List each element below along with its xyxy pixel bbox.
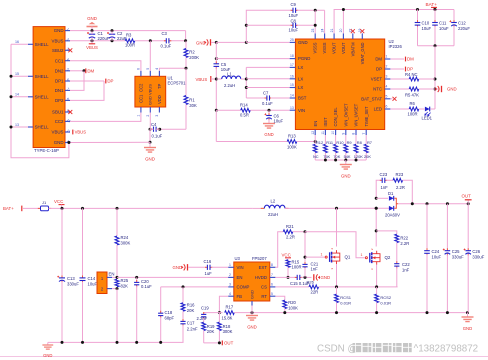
wire COMP line [161,286,229,288]
svg-text:10: 10 [331,131,335,135]
no-connect VBATM [351,29,355,33]
wire LX bus [245,67,247,98]
svg-text:SHELL: SHELL [35,125,49,130]
svg-text:75K: 75K [323,154,330,159]
wire VBUS pin2 net [70,40,125,42]
svg-text:5: 5 [271,292,273,296]
svg-text:VSET: VSET [371,77,383,82]
svg-text:300K: 300K [121,241,131,246]
svg-text:BAT+: BAT+ [3,206,14,211]
ground right rail [466,311,469,314]
capacitor C11 10uF [434,8,437,11]
svg-text:6: 6 [386,105,388,109]
svg-text:GND: GND [54,140,64,145]
svg-text:DP: DP [107,79,113,84]
header EN 2pin [97,272,107,294]
IC U3 FP5207 [234,262,270,301]
svg-text:ISET: ISET [323,117,328,127]
svg-text:330uF: 330uF [67,281,79,286]
svg-text:VOUT: VOUT [332,42,337,54]
resistor R3 100R [125,39,135,43]
ground U1 GND [149,142,151,147]
svg-text:LX: LX [298,65,303,70]
capacitor C3 0.1uF [164,40,166,42]
svg-text:15: 15 [15,72,19,76]
wire gate bus [293,231,305,233]
svg-text:CON_SEL: CON_SEL [333,107,338,127]
svg-text:VDD: VDD [157,95,162,104]
svg-text:NC: NC [313,154,319,159]
IC U1 ECP5701 [135,76,166,107]
svg-text:12: 12 [311,131,315,135]
wire resistor bottom bus [315,159,366,161]
svg-text:DM: DM [87,68,94,73]
svg-text:VIN: VIN [237,265,244,270]
svg-text:21: 21 [330,29,334,33]
svg-text:220uF: 220uF [458,26,470,31]
resistor R23 2.2R snubber [393,178,403,182]
svg-text:0.1uF: 0.1uF [161,44,172,49]
svg-text:PGND: PGND [298,56,310,61]
svg-text:RT: RT [261,294,267,299]
capacitor C2 22uF [111,29,114,32]
svg-text:2: 2 [229,273,231,277]
resistor R16 20K [182,287,184,303]
capacitor C23 1nF snubber [376,180,381,198]
svg-text:0.01R: 0.01R [340,301,351,306]
wire sgnd rail [252,312,468,314]
capacitor C13 330uF [61,207,64,210]
capacitor C16 1uF [205,266,207,268]
wire U1 pin2 to GND [149,113,151,130]
svg-text:CC2: CC2 [55,119,64,124]
svg-text:ECP5701: ECP5701 [168,81,187,86]
svg-text:R5 47K: R5 47K [405,92,419,97]
svg-text:7: 7 [271,273,273,277]
svg-text:R7: R7 [367,140,372,145]
svg-text:VBUS: VBUS [86,45,98,50]
svg-text:R23: R23 [396,172,404,177]
svg-text:2: 2 [386,65,388,69]
svg-text:100K: 100K [288,305,298,310]
port OUT bottom [221,341,223,346]
svg-text:GND: GND [321,275,331,280]
svg-text:R6: R6 [410,101,416,106]
svg-text:LED1: LED1 [422,116,433,121]
svg-text:LX: LX [298,76,303,81]
svg-text:30K: 30K [189,103,197,108]
svg-text:1: 1 [361,253,363,257]
resistor R5 47K [390,88,409,90]
svg-text:GND: GND [264,132,273,137]
svg-text:8: 8 [352,133,356,135]
wire FB line [219,296,228,312]
svg-text:EN: EN [237,275,243,280]
wire VCC rail [49,207,253,209]
svg-text:10uF: 10uF [439,26,449,31]
resistor R17 15.8K [225,311,235,315]
capacitor C4 0.1uF [158,128,161,131]
svg-text:CSDN @: CSDN @ [317,344,357,355]
wire CS line [275,286,309,288]
svg-text:100R: 100R [125,43,135,48]
svg-text:1: 1 [229,263,231,267]
svg-text:VBAT_GND: VBAT_GND [360,42,365,64]
svg-text:20K: 20K [207,329,215,334]
svg-text:24: 24 [320,29,324,33]
svg-text:GND: GND [173,265,183,270]
svg-text:5: 5 [146,68,150,70]
svg-text:LX: LX [298,85,303,90]
svg-text:GND: GND [145,157,155,162]
svg-text:C8: C8 [291,18,297,23]
svg-text:R10: R10 [336,140,344,145]
svg-text:4: 4 [155,68,159,70]
svg-text:TP: TP [157,83,162,89]
svg-text:16: 16 [15,40,19,44]
svg-text:EN: EN [313,121,318,127]
svg-text:R3: R3 [126,33,132,38]
svg-text:D1: D1 [388,191,394,196]
svg-text:DN1: DN1 [55,88,64,93]
svg-text:EN: EN [109,271,115,276]
port DM [85,68,87,73]
svg-text:10uF: 10uF [422,26,432,31]
svg-text:GND: GND [447,87,457,92]
capacitor C15 0.1uF [295,276,297,278]
capacitor C14 10uF [81,207,84,210]
svg-text:10uF: 10uF [274,118,284,123]
svg-text:3: 3 [386,75,388,79]
svg-text:2: 2 [146,115,150,117]
resistor R2 200K [185,41,187,49]
svg-text:VIN: VIN [298,108,305,113]
svg-text:DP: DP [376,67,382,72]
resistor R25 82K [116,276,119,279]
svg-text:14: 14 [15,93,19,97]
svg-text:BST: BST [298,96,307,101]
inductor L2 22uH [253,207,265,209]
svg-text:1: 1 [321,253,323,257]
svg-text:FP5207: FP5207 [252,256,267,261]
resistor network R12-R7 [314,135,316,144]
resistor R14 0.5R [241,108,251,112]
svg-text:FB: FB [237,294,243,299]
resistor R19 20K [202,322,206,330]
svg-text:VIN_UVSET: VIN_UVSET [354,103,359,126]
svg-text:1nF: 1nF [381,185,389,190]
svg-text:22R: 22R [311,289,319,294]
svg-text:300K: 300K [223,329,233,334]
svg-text:2.2R: 2.2R [286,235,295,240]
capacitor C17 2.2nF [182,319,184,321]
svg-text:R14: R14 [240,103,248,108]
svg-text:22uH: 22uH [268,212,278,217]
svg-text:0.1uF: 0.1uF [152,134,163,139]
svg-text:R11: R11 [326,140,333,145]
svg-text:SHELL: SHELL [35,42,49,47]
svg-text:LED: LED [374,107,382,112]
svg-text:SBU2: SBU2 [52,48,64,53]
connector J1 TYPE-C-16P [33,27,65,148]
svg-text:Q1: Q1 [345,255,351,260]
resistor R15 100R [287,258,289,260]
capacitor C22 1nF [396,261,398,263]
ground bottom resistors [345,160,347,165]
svg-text:2.2R: 2.2R [396,185,405,190]
svg-text:GND: GND [298,40,308,45]
svg-text:C9: C9 [291,2,297,7]
svg-text:200K: 200K [189,55,199,60]
svg-text:70K: 70K [333,154,340,159]
svg-text:25: 25 [290,38,294,42]
svg-text:^13828798872: ^13828798872 [414,344,479,355]
svg-text:20K: 20K [187,308,195,313]
svg-text:GND VBUS: GND VBUS [148,84,153,105]
resistor R13 100K [287,140,297,144]
svg-text:R17: R17 [226,304,234,309]
svg-text:BAT+: BAT+ [426,2,438,7]
svg-text:R9: R9 [347,140,352,145]
svg-text:3: 3 [229,283,231,287]
svg-text:15.8K: 15.8K [222,315,233,320]
svg-text:1: 1 [137,115,141,117]
svg-text:16: 16 [290,74,294,78]
svg-text:VSSS: VSSS [313,42,318,53]
svg-text:R13: R13 [288,133,296,138]
svg-text:4: 4 [386,85,388,89]
resistor R1 30K [185,68,187,95]
svg-text:OUT: OUT [224,341,234,346]
svg-text:1uF: 1uF [205,271,213,276]
svg-text:100R: 100R [292,265,302,270]
svg-text:RCS2: RCS2 [380,295,391,300]
capacitor C5 10uF [215,42,217,62]
svg-text:CC1: CC1 [55,58,64,63]
svg-text:COMP: COMP [237,285,250,290]
capacitor C19 2.2nF [203,312,205,315]
svg-text:R26: R26 [307,280,315,285]
svg-text:2.2nF: 2.2nF [197,316,208,321]
svg-text:VOUT: VOUT [341,42,346,54]
svg-text:OUT: OUT [462,193,472,198]
svg-text:120K: 120K [354,154,363,159]
svg-text:VCC: VCC [282,253,291,258]
svg-text:NTC: NTC [373,87,382,92]
svg-text:VSSS: VSSS [322,42,327,53]
resistor RCS2 0.01R [376,287,378,294]
svg-text:SHELL: SHELL [35,94,49,99]
resistor R20 100K [275,296,284,300]
wire GND pin1 net [70,30,186,32]
wire EN line to U3 [117,276,234,278]
svg-text:BAT_STAT: BAT_STAT [361,96,382,101]
svg-text:DM: DM [407,57,414,62]
wire FB-divider line [204,312,223,314]
power port VBUS below C1 [91,41,93,44]
svg-text:20A60V: 20A60V [385,213,400,218]
svg-text:DN2: DN2 [55,68,64,73]
svg-text:14: 14 [290,94,294,98]
svg-text:R2: R2 [189,50,195,55]
capacitor C18 68pF [160,287,162,312]
svg-text:R8: R8 [357,140,362,145]
svg-text:0.1uF: 0.1uF [141,284,152,289]
svg-text:VBUS: VBUS [52,38,64,43]
no-connect SBU1 [68,110,72,114]
svg-text:C16: C16 [204,259,212,264]
wire VSSS pins to C8/C9 [314,9,317,12]
svg-text:1nF: 1nF [311,267,319,272]
wire EN col down [116,289,118,343]
svg-text:VBATM: VBATM [350,42,355,56]
capacitor C20 0.1uF [135,276,138,279]
capacitor C12 220uF [453,10,455,22]
svg-text:EXT: EXT [259,265,268,270]
svg-text:0.1uF: 0.1uF [262,101,273,106]
ground U3 GND [251,306,253,313]
svg-text:8: 8 [271,263,273,267]
power port GND at HVDD [316,274,317,280]
wire shell bus [11,43,28,45]
svg-text:20K: 20K [364,154,371,159]
svg-text:4: 4 [229,292,231,296]
svg-text:GND: GND [247,324,257,329]
svg-text:VIN_OVSET: VIN_OVSET [343,103,348,126]
wire EN line R13 [215,110,217,141]
wire Q1 gate [304,232,306,257]
svg-text:U3: U3 [235,256,241,261]
svg-text:GND: GND [341,174,351,179]
svg-text:R24: R24 [121,235,129,240]
svg-text:17: 17 [290,63,294,67]
wire pin12 GND to U1 GND [69,141,150,143]
svg-text:RCS1: RCS1 [340,295,351,300]
resistor R6 100R [390,108,409,110]
svg-text:68pF: 68pF [165,315,175,320]
port DP [105,79,107,84]
wire U1 VBUS pin up [149,41,151,71]
power port VBUS pin11 [72,130,74,135]
wire gnd vertical right [434,46,436,109]
svg-text:C19: C19 [201,305,209,310]
IC U2 IP2326 [295,39,384,130]
svg-text:330uF: 330uF [452,254,464,259]
capacitor C26 330uF [467,204,469,250]
ground C6 [263,124,275,129]
transistor Q2 [375,208,377,246]
wire GND to U2 pin25 [216,41,246,43]
wire cap gnd rail [418,45,455,47]
wire OUT net [204,342,221,344]
svg-text:100K: 100K [287,145,297,150]
svg-text:SHELL: SHELL [35,74,49,79]
svg-text:10uF: 10uF [88,281,98,286]
resistor RCS1 0.01R [336,287,338,294]
svg-text:DP2: DP2 [55,98,64,103]
svg-text:5: 5 [386,94,388,98]
svg-text:18: 18 [290,54,294,58]
capacitor C6 10uF [268,109,271,112]
svg-text:VBUS: VBUS [196,77,208,82]
resistor R18 300K [218,313,220,323]
svg-text:13: 13 [15,123,19,127]
svg-text:7: 7 [362,133,366,135]
svg-text:CS: CS [261,285,267,290]
svg-text:15: 15 [290,83,294,87]
svg-text:C17: C17 [187,321,195,326]
svg-text:R4 NC: R4 NC [405,72,418,77]
svg-text:CC1: CC1 [138,94,143,103]
svg-text:10uF: 10uF [289,13,299,18]
svg-text:GND: GND [54,28,64,33]
port DM right [390,58,404,60]
svg-text:10uF: 10uF [289,27,299,32]
svg-text:GND: GND [250,290,255,299]
svg-text:C3: C3 [162,31,168,36]
no-connect VBAT_GND [360,29,364,33]
svg-text:2.2uH: 2.2uH [224,83,235,88]
svg-text:20: 20 [339,29,343,33]
port DP right [390,68,404,70]
ground GND top [87,26,98,28]
svg-text:GND: GND [43,353,52,358]
svg-text:1: 1 [386,55,388,59]
svg-text:DP: DP [407,67,413,72]
svg-text:11: 11 [321,131,325,135]
svg-text:Q2: Q2 [385,255,391,260]
wire left gnd rail [48,341,184,343]
capacitor C21 1nF [304,257,306,263]
svg-text:GND: GND [463,326,473,331]
svg-text:R1: R1 [189,98,195,103]
svg-text:TIME_SET: TIME_SET [364,106,369,127]
svg-text:VBUS: VBUS [75,130,87,135]
power port GND right [438,86,439,92]
wire switch rail [285,207,390,209]
ground left rail [47,342,49,345]
svg-text:C4: C4 [151,122,157,127]
wire VOUT pins to BAT+ rail [334,10,454,34]
resistor R26 22R [309,285,319,289]
svg-text:GND: GND [87,16,97,21]
wire U1 TP to R2/R3 node [159,68,186,71]
svg-text:2.2nF: 2.2nF [187,326,198,331]
svg-text:9: 9 [341,133,345,135]
svg-text:10uF: 10uF [432,254,442,259]
svg-text:82K: 82K [121,283,129,288]
svg-text:C7: C7 [263,91,269,96]
svg-text:R21: R21 [286,224,294,229]
svg-text:13: 13 [290,106,294,110]
diode D1 20A60V [375,197,378,200]
no-connect SBU2 [68,48,72,52]
svg-text:6: 6 [137,68,141,70]
svg-text:TYPE-C-16P: TYPE-C-16P [34,148,59,153]
svg-text:3: 3 [155,115,159,117]
resistor R21 2.2R [283,230,293,234]
wire EXT line [275,232,283,268]
capacitor C10 10uF [416,8,419,11]
capacitor C24 10uF [426,204,428,250]
capacitor C8 10uF [245,24,248,27]
capacitor C1 220uF [91,32,93,34]
capacitor C25 330uF [446,204,448,250]
capacitor C7 0.1uF bootstrap [246,97,265,99]
svg-text:L1: L1 [227,71,232,76]
svg-text:2.2R: 2.2R [400,241,409,246]
svg-text:0.5R: 0.5R [240,112,249,117]
